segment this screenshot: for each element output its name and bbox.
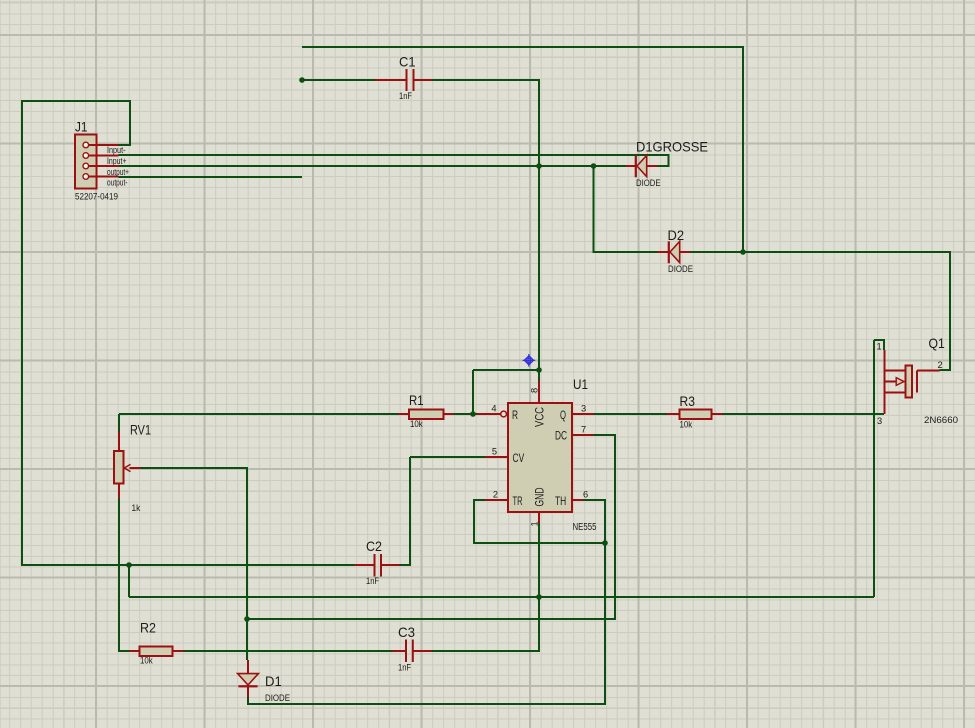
svg-text:D2: D2 [668, 227, 685, 243]
diode D2 [658, 227, 694, 274]
wire C1 row left segment from output- column [302, 79, 375, 81]
svg-text:Input+: Input+ [107, 156, 127, 166]
wire Q1 source column from pin1 corner down to bottom long rail [873, 340, 875, 597]
potentiometer RV1 1k [114, 422, 151, 514]
node VCC junction [536, 367, 542, 373]
node output+ / D2 branch junction [591, 163, 597, 169]
svg-text:D1GROSSE: D1GROSSE [636, 139, 708, 155]
svg-text:3: 3 [877, 416, 882, 426]
svg-text:C2: C2 [366, 538, 382, 554]
node bottom-left rail junction [126, 562, 132, 568]
svg-text:R3: R3 [680, 393, 696, 409]
svg-text:1nF: 1nF [366, 576, 379, 586]
node D1 / DC loop junction [244, 616, 250, 622]
wire top rail from node above J1-output- to D2 column [302, 47, 743, 252]
svg-text:10k: 10k [140, 656, 153, 666]
wire D1 anode from node [246, 619, 248, 660]
wire J1 output- row to top rail column [119, 176, 303, 178]
svg-text:Input-: Input- [107, 145, 126, 155]
node GND / long rail junction [536, 594, 542, 600]
capacitor C3 1nF [393, 624, 432, 673]
svg-text:GND: GND [533, 487, 547, 506]
svg-text:RV1: RV1 [130, 422, 151, 438]
wire TR/TH node down to bottom rail to D1 bottom [248, 543, 605, 704]
connector J1 52207-0419 [75, 119, 129, 202]
capacitor C1 1nF [375, 54, 432, 102]
svg-text:10k: 10k [410, 419, 423, 429]
wire D2 row right to Q1 gate column [690, 252, 950, 370]
diode D1GROSSE [626, 139, 708, 189]
svg-text:TR: TR [513, 494, 523, 508]
origin marker [523, 354, 536, 367]
svg-text:C1: C1 [399, 54, 416, 70]
wire U1 pin3 Q row to R3 [594, 413, 668, 415]
diode D1 [238, 660, 290, 703]
svg-text:Q: Q [560, 408, 566, 422]
svg-text:10k: 10k [680, 420, 693, 430]
wire GND pin1 column down to C3 [432, 524, 540, 652]
wire C2 right column up to CV row [400, 457, 411, 565]
wire J1 output+ row to D1GROSSE anode [119, 165, 627, 167]
resistor R2 10k [130, 620, 184, 666]
wire D1GROSSE node down to D2 row [594, 166, 658, 252]
node output- / C1 junction [299, 77, 305, 83]
wire main row RV1-top to R1 [119, 413, 399, 415]
wire C1 row right segment into middle column down to VCC node [432, 80, 540, 370]
svg-text:R2: R2 [140, 620, 156, 636]
wire J1 input- loop up and left then down left edge to bottom rail [22, 101, 355, 565]
svg-text:1: 1 [530, 521, 540, 526]
wire RV1 top lead riser [118, 414, 120, 432]
svg-text:J1: J1 [75, 119, 88, 135]
svg-text:2: 2 [938, 360, 943, 370]
svg-text:8: 8 [530, 388, 540, 393]
wire RV1 wiper to D1 column [141, 468, 248, 660]
svg-text:DIODE: DIODE [636, 178, 661, 188]
svg-text:6: 6 [583, 490, 588, 500]
wire TR loop [474, 500, 605, 543]
svg-text:DIODE: DIODE [265, 693, 290, 703]
wire CV row from C2 column [410, 456, 485, 458]
svg-text:DIODE: DIODE [668, 264, 693, 274]
svg-text:R: R [512, 408, 518, 422]
wire junction column below bottom-left node [128, 565, 130, 597]
wire TH to TR/TH node [583, 500, 605, 543]
svg-text:Q1: Q1 [929, 335, 945, 351]
svg-text:output-: output- [107, 178, 128, 188]
wire VCC tee from pin4 node to VCC node [473, 370, 539, 414]
op-amp timer U1 NE555 [477, 376, 597, 533]
svg-text:7: 7 [581, 425, 586, 435]
svg-text:3: 3 [581, 404, 586, 414]
wire Q1 pin1 corner [874, 340, 884, 350]
svg-text:5: 5 [492, 447, 497, 457]
svg-text:R1: R1 [409, 392, 424, 408]
wire bottom long rail [129, 596, 874, 598]
wire VCC node stub down to pin 8 [538, 370, 540, 381]
resistor R1 10k [399, 392, 454, 429]
svg-text:4: 4 [491, 404, 496, 414]
transistor Q1 2N6660 MOSFET [877, 335, 959, 426]
svg-text:TH: TH [555, 494, 566, 508]
svg-text:DC: DC [555, 429, 567, 443]
node D2 / top rail junction [740, 249, 746, 255]
wire J1 input+ row to D1GROSSE cathode jog [119, 155, 669, 166]
svg-text:VCC: VCC [533, 407, 547, 427]
svg-text:output+: output+ [107, 167, 129, 177]
node U1 pin4 junction [470, 411, 476, 417]
node output+ / middle column junction [536, 163, 542, 169]
capacitor C2 1nF [355, 538, 400, 586]
wire RV1 bottom lead to R2 row [119, 498, 130, 651]
svg-text:1nF: 1nF [399, 91, 412, 101]
wire R3 to Q1 pin3 crossing [722, 413, 884, 415]
svg-text:C3: C3 [398, 624, 415, 640]
svg-text:U1: U1 [573, 376, 588, 392]
svg-text:2N6660: 2N6660 [924, 415, 958, 425]
svg-text:1nF: 1nF [398, 663, 411, 673]
svg-text:52207-0419: 52207-0419 [75, 192, 118, 202]
wire DC loop from pin7 down and left to D1 node [248, 435, 615, 619]
node TR-TH junction [602, 540, 608, 546]
svg-text:CV: CV [513, 451, 525, 465]
svg-text:2: 2 [493, 490, 498, 500]
resistor R3 10k [667, 393, 722, 430]
wire R2 to C3 [184, 650, 393, 652]
wire R1 to U1 pin4 node [454, 413, 478, 415]
svg-text:D1: D1 [265, 673, 282, 689]
svg-text:1k: 1k [132, 503, 141, 513]
svg-text:1: 1 [877, 342, 882, 352]
svg-text:NE555: NE555 [573, 522, 597, 533]
